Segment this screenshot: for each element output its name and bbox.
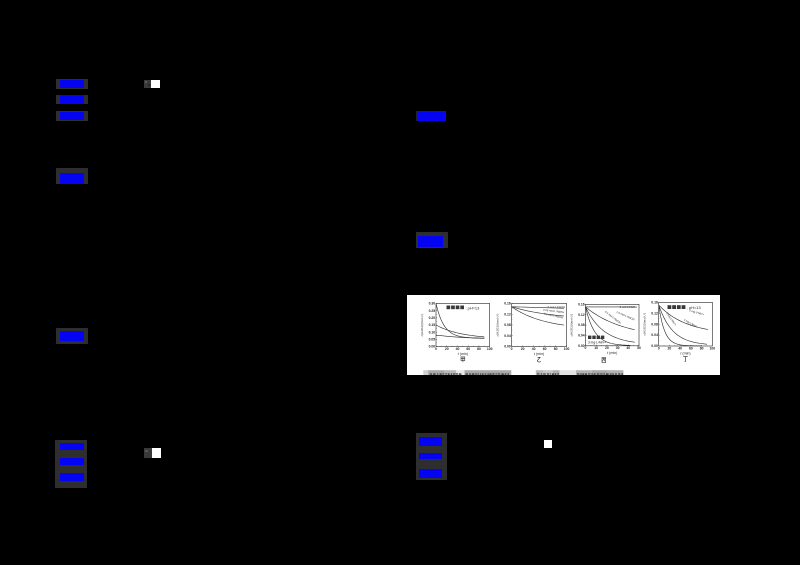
svg-text:t (min): t (min) [458,352,468,356]
svg-text:0.30: 0.30 [429,302,436,306]
svg-text:10: 10 [594,346,598,350]
svg-text:0.12: 0.12 [651,311,658,315]
svg-text:0.05: 0.05 [429,337,436,341]
svg-text:0.15: 0.15 [429,323,436,327]
svg-text:40: 40 [532,347,536,351]
svg-text:3 mg·L¹Mn²+: 3 mg·L¹Mn²+ [588,340,606,344]
svg-text:30: 30 [616,346,620,350]
svg-text:0.16: 0.16 [504,302,511,306]
svg-text:t (min): t (min) [534,352,544,356]
svg-text:0.04: 0.04 [504,334,511,338]
svg-text:80: 80 [477,347,481,351]
svg-text:100: 100 [564,347,570,351]
svg-text:20: 20 [605,346,609,350]
svg-text:0.12: 0.12 [578,313,585,317]
svg-text:c(H2O2)/(mol·L¹): c(H2O2)/(mol·L¹) [643,313,647,336]
svg-text:0 mol·L¹NaOH: 0 mol·L¹NaOH [620,305,637,309]
svg-text:60: 60 [543,347,547,351]
svg-text:0.10: 0.10 [429,330,436,334]
svg-text:80: 80 [554,347,558,351]
svg-text:20: 20 [445,347,449,351]
svg-text:5 mg·L¹Mn²+: 5 mg·L¹Mn²+ [665,312,677,327]
svg-text:0.20: 0.20 [429,316,436,320]
svg-text:0.16: 0.16 [651,300,658,304]
svg-text:80: 80 [700,346,704,350]
svg-text:t (min): t (min) [607,351,617,355]
svg-text:60: 60 [689,346,693,350]
svg-text:0: 0 [658,346,660,350]
svg-text:20: 20 [668,346,672,350]
svg-text:0: 0 [511,347,513,351]
svg-text:20: 20 [521,347,525,351]
svg-text:50: 50 [637,346,641,350]
svg-text:: pH=13: : pH=13 [466,305,480,310]
svg-text:100: 100 [487,347,493,351]
svg-text:0.08: 0.08 [504,323,511,327]
svg-text:0.12: 0.12 [504,312,511,316]
svg-text:c(H2O2)/(mol·L¹): c(H2O2)/(mol·L¹) [569,314,573,337]
svg-text:60: 60 [466,347,470,351]
svg-text:c(H2O2)/(mol·L¹): c(H2O2)/(mol·L¹) [420,314,424,337]
svg-text:0.08: 0.08 [578,323,585,327]
svg-text:0.04: 0.04 [651,333,658,337]
svg-text:0: 0 [435,347,437,351]
svg-text:40: 40 [456,347,460,351]
svg-text:40: 40 [678,346,682,350]
svg-text:40: 40 [626,346,630,350]
svg-text:100: 100 [709,346,715,350]
svg-text:c(H2O2)/(mol·L¹): c(H2O2)/(mol·L¹) [495,314,499,337]
svg-text:0.04: 0.04 [578,334,585,338]
svg-text:t (min): t (min) [680,351,690,355]
svg-text:0.16: 0.16 [578,303,585,307]
svg-text:0: 0 [585,346,587,350]
svg-text:0.08: 0.08 [651,322,658,326]
svg-text:0.25: 0.25 [429,309,436,313]
